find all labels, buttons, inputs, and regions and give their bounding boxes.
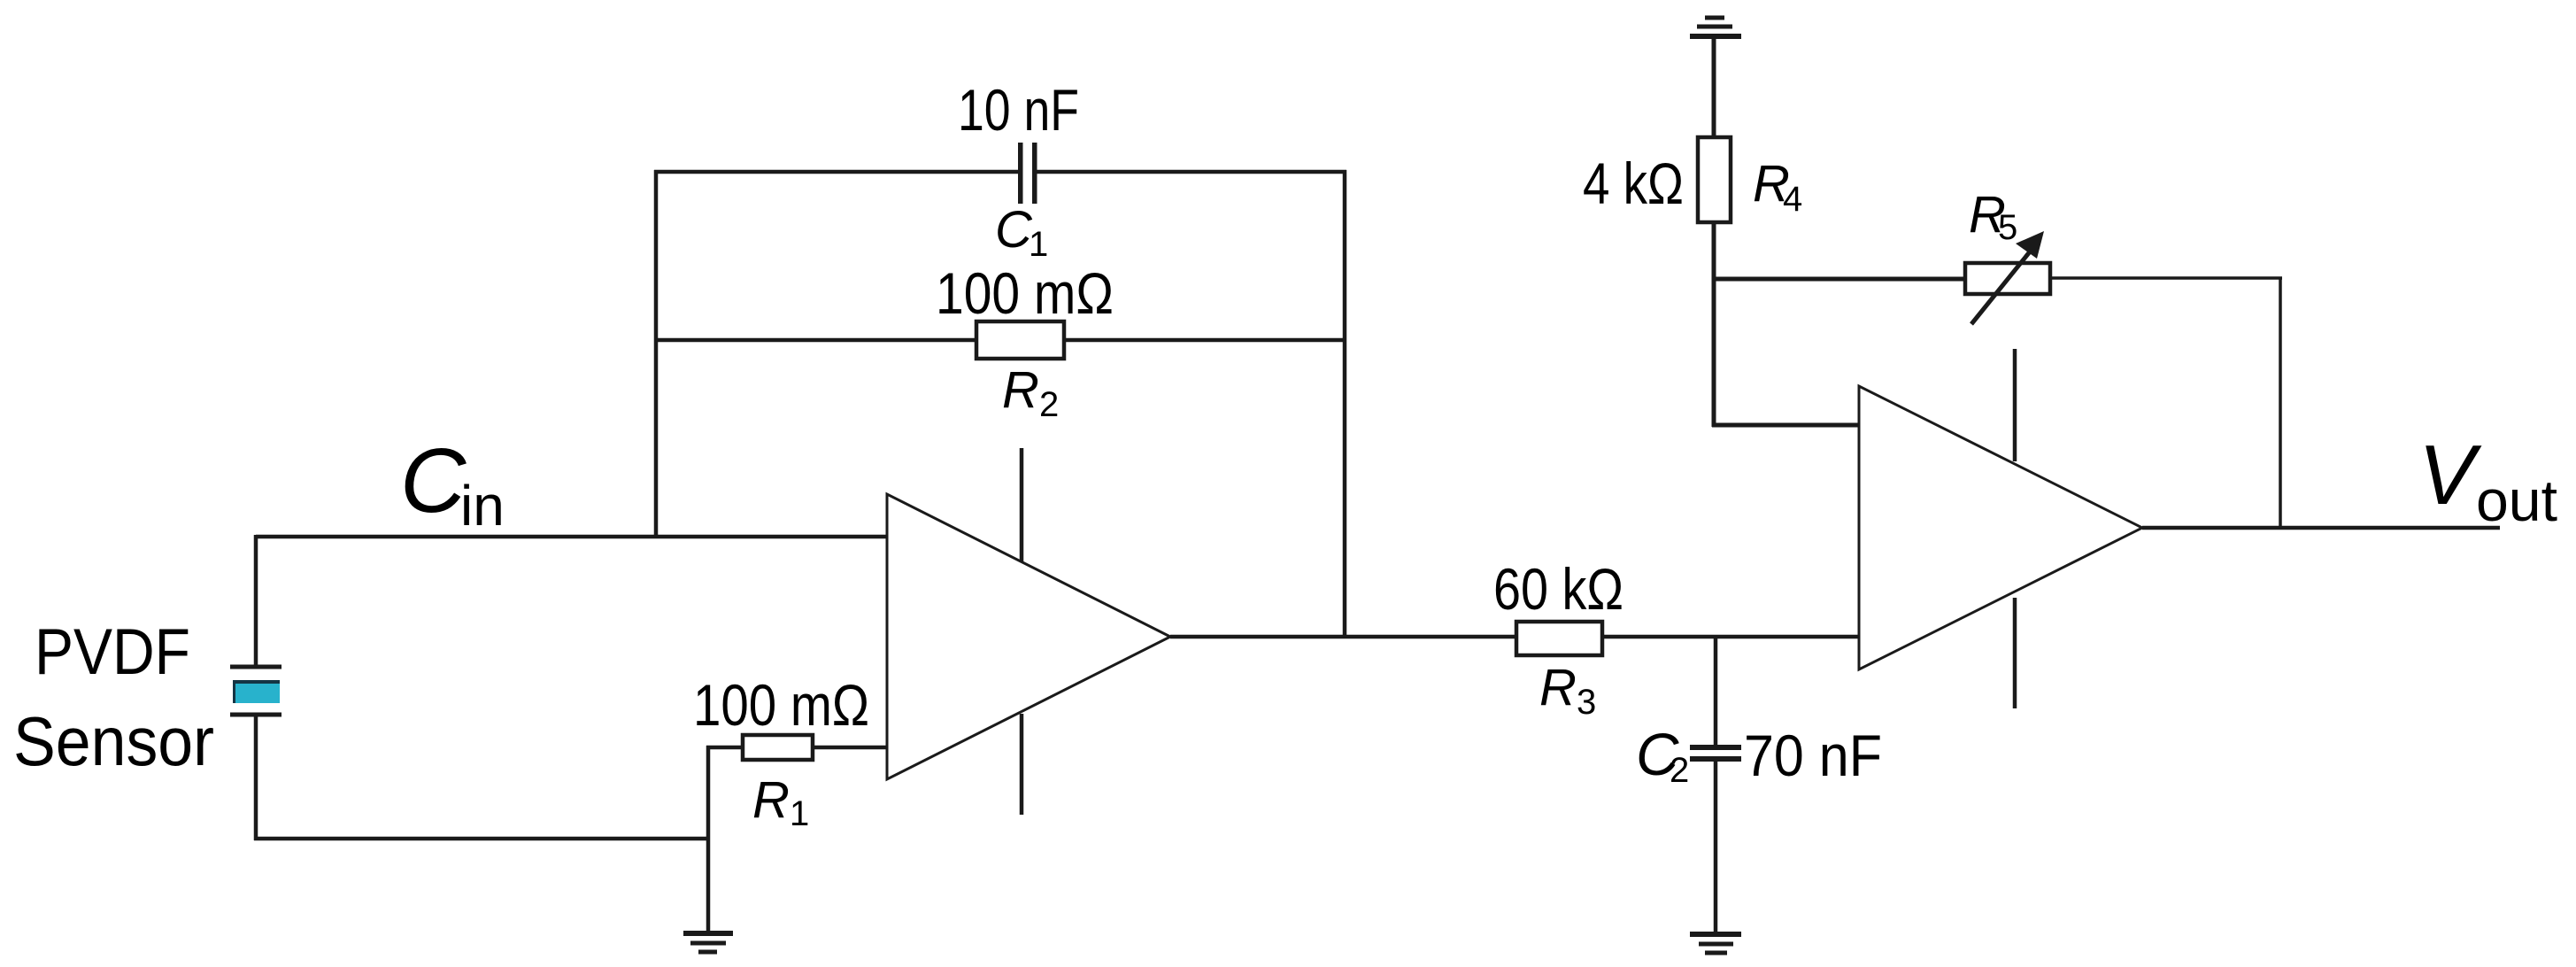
wire R1 left lead [706,746,741,750]
wire feedback top horizontal right of C1 [1037,170,1347,174]
ground (inverted, above R4) [1690,18,1741,36]
svg-text:60 kΩ: 60 kΩ [1493,556,1623,622]
svg-text:4 kΩ: 4 kΩ [1583,151,1684,216]
node Cin label [400,429,505,538]
wire vertical R1 node to ground [706,746,711,932]
svg-text:5: 5 [1998,208,2017,247]
svg-text:C: C [400,429,467,531]
wire R3 to U2 - input [1604,635,1861,639]
wire U2 negative supply [2013,598,2017,708]
resistor R2 [976,321,1064,359]
capacitor PVDF sensor cyan element [233,680,280,703]
node Vout label [2418,428,2557,533]
wire R4 bottom stem down to U2 + corner [1712,222,1716,427]
svg-text:100 mΩ: 100 mΩ [693,672,869,738]
capacitor PVDF sensor bottom plate [230,713,282,717]
wire bottom horizontal from sensor to R1 node [254,837,710,841]
label C1 designator [995,201,1048,264]
svg-text:R: R [1002,361,1039,419]
R5 variable arrow [1971,231,2044,324]
wire sensor top stem [254,535,258,667]
svg-text:in: in [460,474,505,538]
wire feedback vertical down to U2 output [2279,278,2282,530]
op-amp U2 [1859,386,2142,669]
wire ground to R4 top [1712,38,1716,137]
label R3 designator [1539,659,1596,722]
wire R4 node to U2 + input [1712,423,1861,428]
resistor R1 [743,735,813,760]
label PVDF Sensor [13,616,214,780]
wire R2 branch left lead [654,338,975,343]
ground (below C2) [1690,934,1741,953]
svg-text:Sensor: Sensor [13,702,214,780]
label R4 designator [1753,155,1802,219]
wire U2 output to Vout [2142,526,2500,530]
svg-text:100 mΩ: 100 mΩ [936,260,1114,326]
svg-text:3: 3 [1577,683,1596,722]
svg-text:10 nF: 10 nF [958,77,1079,143]
svg-text:C: C [995,201,1033,259]
svg-text:PVDF: PVDF [35,616,190,688]
wire R5 right lead to feedback corner [2050,276,2282,280]
wire Cin top horizontal from sensor to U1 + input [256,535,889,539]
capacitor C1 [1018,143,1037,204]
resistor R5 (variable) [1965,263,2050,294]
wire R2 branch right lead [1066,338,1346,343]
wire sensor bottom stem [254,715,258,840]
wire U1 negative supply [1020,714,1024,815]
resistor R3 [1516,622,1602,655]
label R5 designator [1969,186,2017,247]
op-amp U1 [887,494,1170,779]
wire C2 upper stem [1714,637,1718,746]
svg-text:R: R [1539,659,1577,716]
svg-text:V: V [2418,428,2482,522]
label C2 designator [1636,722,1689,790]
svg-text:2: 2 [1039,385,1059,424]
wire feedback loop right vertical down to U1 output [1343,170,1347,638]
wire U2 positive supply [2013,349,2017,461]
resistor R4 [1698,137,1731,222]
label R1 designator [752,771,809,833]
svg-text:70 nF: 70 nF [1744,723,1882,788]
wire U1 positive supply [1020,448,1024,561]
capacitor PVDF sensor top plate [230,665,282,669]
wire U1 output to R3 [1170,635,1516,639]
svg-text:1: 1 [790,794,809,833]
wire C2 lower stem to ground [1714,761,1718,932]
svg-text:4: 4 [1783,180,1802,219]
svg-text:out: out [2476,468,2557,533]
svg-text:R: R [752,771,790,829]
svg-text:2: 2 [1670,751,1689,790]
wire R1 right lead to U1 - input [814,746,889,750]
label R2 designator [1002,361,1059,424]
wire feedback loop left vertical [654,170,659,538]
svg-text:1: 1 [1029,225,1048,264]
wire R4 node to R5 left lead [1712,277,1963,282]
wire feedback top horizontal left of C1 [654,170,1018,174]
capacitor C2 [1690,745,1741,762]
ground (below R1 node) [683,933,733,952]
